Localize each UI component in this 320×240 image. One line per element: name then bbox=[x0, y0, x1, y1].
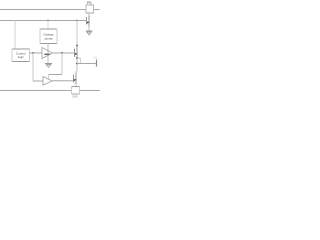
wire: branch down to amp2 input bbox=[32, 53, 34, 81]
svg-text:GND: GND bbox=[72, 95, 78, 99]
GND pad box bbox=[72, 86, 80, 94]
drain lead from PS box bbox=[88, 13, 90, 16]
transistor Q3 (low side) bbox=[74, 71, 78, 87]
wire: second rail to Q1 gate bbox=[0, 20, 87, 22]
op-amp A2 (gate driver buffer, lower) bbox=[43, 77, 52, 86]
svg-text:PS: PS bbox=[87, 1, 92, 5]
node: source/diode top junction bbox=[76, 57, 78, 59]
op-amp A1 (gate driver buffer, upper) bbox=[42, 48, 53, 59]
wire: drop from rail2 to charge pump box bbox=[47, 21, 49, 30]
resistor/sense box PS (series element in top rail) bbox=[86, 5, 94, 14]
wire: branch down and left to A2 top bbox=[61, 53, 63, 75]
gate bar bbox=[74, 49, 76, 58]
wire: control logic output to amp1 input bbox=[30, 52, 43, 54]
source lead to GND pad bbox=[75, 84, 77, 87]
channel bbox=[75, 73, 77, 85]
drain jog bbox=[76, 71, 77, 73]
ground symbol under A1 bbox=[45, 64, 52, 68]
svg-text:logic: logic bbox=[18, 55, 24, 59]
wire: top supply rail VIN (right of series box) bbox=[94, 9, 100, 11]
transistor Q1 (top right, below PS box) bbox=[87, 13, 90, 31]
wire: top supply rail VIN (left of series box) bbox=[0, 9, 86, 11]
charge pump box bbox=[40, 29, 57, 44]
body arrow bbox=[75, 53, 77, 55]
svg-text:pump: pump bbox=[45, 36, 53, 40]
source lead bbox=[88, 27, 90, 32]
ground symbol under Q1 bbox=[86, 31, 93, 35]
node: output junction bbox=[76, 63, 78, 65]
node: rail2 / charge-pump drop junction bbox=[47, 20, 49, 22]
wire: body diode jog bbox=[77, 57, 81, 59]
terminal SW pin bar bbox=[96, 60, 98, 67]
channel bbox=[76, 46, 78, 59]
wire: Q2 source down to Q3 drain bbox=[76, 58, 78, 71]
amp1 input marks smudge bbox=[44, 53, 50, 55]
gate bar bbox=[73, 75, 75, 83]
node: branch to amp2 bbox=[32, 52, 34, 54]
svg-text:SW: SW bbox=[93, 56, 98, 60]
node: drain junction bbox=[76, 45, 78, 47]
gate bar bbox=[86, 17, 88, 25]
wire: drop from rail2 to control logic box bbox=[14, 21, 16, 50]
body arrow bbox=[87, 22, 89, 24]
wire: A2 output to Q3 gate bbox=[52, 80, 74, 82]
wire: bottom ground rail (left of GND pad) bbox=[0, 90, 72, 92]
wire: A1 output to Q2 gate bbox=[53, 52, 75, 54]
control logic box bbox=[12, 49, 30, 62]
node: rail2 / Q2 drain drop junction bbox=[76, 20, 78, 22]
background bbox=[0, 0, 100, 100]
transistor Q2 (mid right) bbox=[75, 45, 78, 58]
channel bbox=[88, 16, 90, 27]
wire: drop from rail2 down to Q2 drain bbox=[76, 21, 78, 46]
wire: charge pump output down through amp1 to its ground bbox=[47, 44, 49, 64]
wire: output to SW terminal bbox=[77, 63, 96, 65]
body arrow bbox=[74, 79, 76, 81]
wire: bottom ground rail (right of GND pad) bbox=[80, 90, 101, 92]
node: A1 output branch bbox=[61, 52, 63, 54]
